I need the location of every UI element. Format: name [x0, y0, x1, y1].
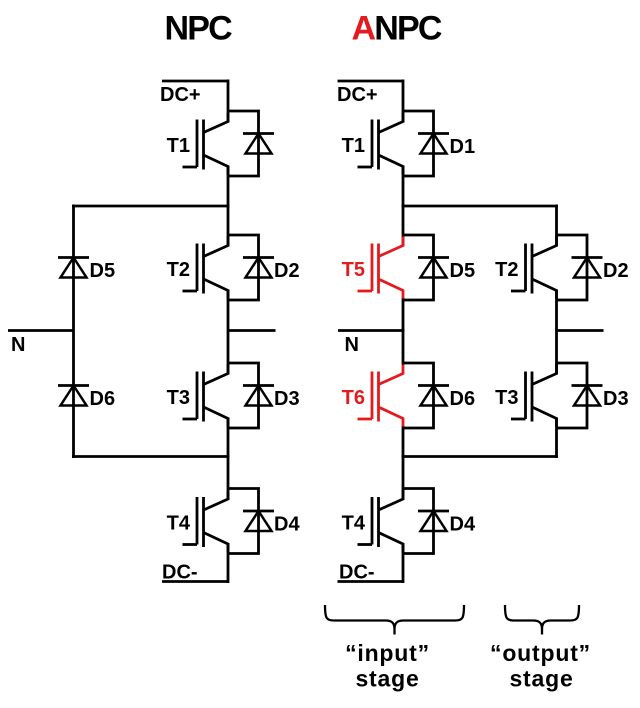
- transistor T4 (NPC): [183, 490, 229, 553]
- wire T3 emitter to lower link (ANPC output stage): [555, 418, 558, 459]
- diode D2 (NPC): [228, 235, 274, 300]
- node neutral-clamp bottom junction (NPC): [72, 455, 230, 458]
- svg-text:“input”: “input”: [345, 640, 430, 666]
- svg-text:stage: stage: [509, 666, 573, 692]
- wire T5 emitter to T6 collector (ANPC): [402, 299, 405, 365]
- label T1 (ANPC): [342, 135, 365, 157]
- svg-text:stage: stage: [355, 666, 419, 692]
- wire neutral N (ANPC): [338, 329, 405, 332]
- wire lower link to output stage (ANPC): [402, 455, 558, 458]
- label DC+ (NPC): [160, 84, 201, 106]
- svg-text:T2: T2: [495, 259, 518, 281]
- svg-text:D6: D6: [450, 388, 476, 410]
- svg-text:N: N: [11, 334, 25, 356]
- label T2 (ANPC output stage): [495, 259, 518, 281]
- svg-text:D2: D2: [603, 260, 629, 282]
- svg-text:T5: T5: [342, 259, 365, 281]
- brace output stage: [505, 605, 579, 635]
- wire DC+ (ANPC): [338, 80, 404, 83]
- svg-text:DC-: DC-: [339, 562, 375, 584]
- svg-text:D3: D3: [603, 388, 629, 410]
- label D6 (NPC): [90, 388, 116, 410]
- diode D5 (ANPC): [403, 235, 449, 300]
- transistor T1 (ANPC): [358, 113, 404, 176]
- wire DC+ (NPC): [162, 80, 228, 83]
- wire T1 emitter to T5 collector (ANPC): [402, 166, 405, 247]
- wire T2 emitter to T3 collector (NPC): [227, 290, 230, 375]
- svg-text:T4: T4: [167, 513, 191, 535]
- label D4 (NPC): [274, 514, 300, 536]
- wire DC+ rail to T1 (ANPC): [402, 80, 405, 123]
- node N label (NPC): [11, 334, 25, 356]
- svg-text:T3: T3: [495, 387, 518, 409]
- wire neutral N (NPC): [8, 329, 74, 332]
- svg-text:T1: T1: [342, 135, 365, 157]
- svg-text:DC+: DC+: [160, 84, 201, 106]
- transistor T5 (ANPC, red): [358, 237, 404, 300]
- label DC- (ANPC): [339, 562, 375, 584]
- svg-text:D5: D5: [450, 260, 476, 282]
- svg-text:T3: T3: [167, 387, 190, 409]
- wire phase output stub (NPC): [228, 329, 276, 332]
- label DC+ (ANPC): [337, 84, 378, 106]
- wire DC+ rail to T1 (NPC): [227, 80, 230, 123]
- svg-text:DC+: DC+: [337, 84, 378, 106]
- label T4 (NPC): [167, 513, 191, 535]
- wire phase output stub (ANPC): [557, 329, 604, 332]
- wire T1 emitter to T2 collector (NPC): [227, 166, 230, 247]
- label T6 (ANPC, red): [342, 387, 365, 409]
- label "input" stage: [345, 640, 430, 692]
- label D3 (ANPC output stage): [603, 388, 629, 410]
- wire output-stage rail top (ANPC): [555, 205, 558, 247]
- diode D3 (NPC): [228, 363, 274, 428]
- diode D3 (ANPC output stage): [557, 363, 603, 428]
- label T3 (ANPC output stage): [495, 387, 518, 409]
- transistor T2 (ANPC output stage): [511, 237, 557, 300]
- label T3 (NPC): [167, 387, 190, 409]
- wire T6 emitter to T4 collector (ANPC): [402, 427, 405, 501]
- svg-text:“output”: “output”: [490, 640, 591, 666]
- label D2 (ANPC output stage): [603, 260, 629, 282]
- svg-text:D3: D3: [274, 388, 300, 410]
- wire DC- (NPC): [162, 580, 228, 583]
- label D5 (NPC): [90, 260, 116, 282]
- transistor T3 (ANPC output stage): [511, 365, 557, 428]
- diode D6 (ANPC): [403, 363, 449, 428]
- transistor T3 (NPC): [183, 365, 229, 428]
- label "output" stage: [490, 640, 591, 692]
- label DC- (NPC): [162, 562, 198, 584]
- svg-text:NPC: NPC: [165, 9, 233, 47]
- diode D6 (NPC): [58, 386, 89, 406]
- node neutral-clamp top junction (NPC): [72, 205, 230, 208]
- label T4 (ANPC): [342, 513, 366, 535]
- svg-text:T4: T4: [342, 513, 366, 535]
- wire clamp branch vertical (NPC): [72, 205, 75, 459]
- transistor T6 (ANPC, red): [358, 365, 404, 428]
- node N label (ANPC): [345, 334, 359, 356]
- svg-text:N: N: [345, 334, 359, 356]
- svg-text:T2: T2: [167, 259, 190, 281]
- label D5 (ANPC): [450, 260, 476, 282]
- label T5 (ANPC, red): [342, 259, 365, 281]
- svg-text:ANPC: ANPC: [352, 9, 442, 47]
- wire T4 emitter to DC- (ANPC): [402, 543, 405, 583]
- transistor T4 (ANPC): [358, 490, 404, 553]
- label T2 (NPC): [167, 259, 190, 281]
- wire upper link to output stage (ANPC): [402, 205, 558, 208]
- label T1 (NPC): [167, 135, 190, 157]
- wire T4 emitter to DC- (NPC): [227, 543, 230, 583]
- brace input stage: [325, 605, 464, 635]
- svg-text:D2: D2: [274, 260, 300, 282]
- diode D4 (ANPC): [403, 489, 449, 554]
- svg-text:T1: T1: [167, 135, 190, 157]
- diode D2 (ANPC output stage): [557, 235, 603, 300]
- svg-text:D4: D4: [274, 514, 300, 536]
- title ANPC (A in red): [352, 9, 442, 47]
- svg-text:D4: D4: [450, 514, 476, 536]
- svg-text:DC-: DC-: [162, 562, 198, 584]
- diode across T1 (NPC): [228, 111, 274, 176]
- label D1 (ANPC): [450, 136, 476, 158]
- svg-text:T6: T6: [342, 387, 365, 409]
- diode D1 (ANPC): [403, 111, 449, 176]
- svg-text:D6: D6: [90, 388, 116, 410]
- wire T2 emitter to T3 collector (ANPC output stage): [555, 290, 558, 375]
- wire DC- (ANPC): [338, 580, 404, 583]
- title NPC: [165, 9, 233, 47]
- diode D5 (NPC): [58, 258, 89, 278]
- transistor T2 (NPC): [183, 237, 229, 300]
- svg-text:D1: D1: [450, 136, 476, 158]
- svg-text:D5: D5: [90, 260, 116, 282]
- label D3 (NPC): [274, 388, 300, 410]
- label D4 (ANPC): [450, 514, 476, 536]
- label D2 (NPC): [274, 260, 300, 282]
- label D6 (ANPC): [450, 388, 476, 410]
- transistor T1 (NPC): [183, 113, 229, 176]
- diode D4 (NPC): [228, 489, 274, 554]
- wire T3 emitter to T4 collector (NPC): [227, 418, 230, 501]
